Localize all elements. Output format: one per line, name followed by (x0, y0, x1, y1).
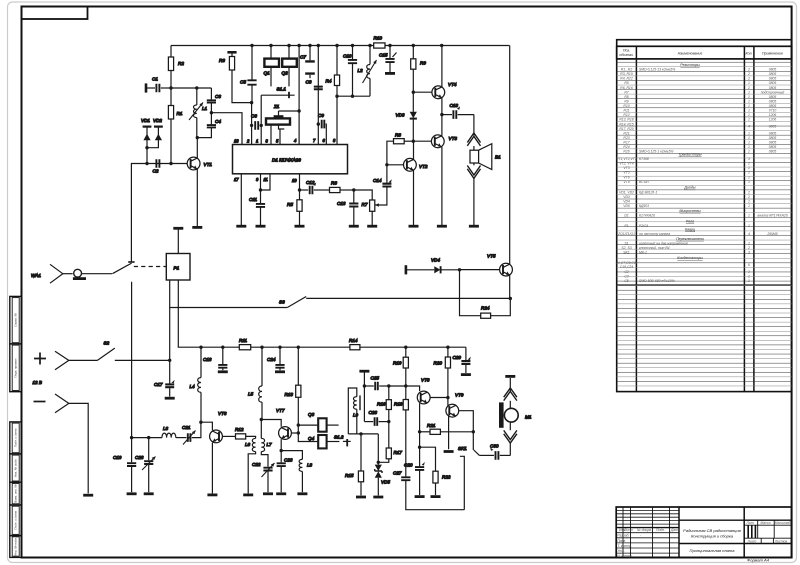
resistor R16 (377, 386, 391, 422)
node VT7 emitter (280, 449, 283, 452)
resistor R10 (374, 36, 386, 49)
svg-text:1: 1 (748, 279, 750, 283)
svg-text:VD3: VD3 (396, 113, 405, 118)
node VT8 base R20 (446, 396, 449, 399)
capacitor C23 (277, 451, 293, 493)
svg-text:1: 1 (748, 95, 750, 99)
wire P1 top to ground bar (177, 230, 179, 254)
ground minus line (83, 494, 93, 497)
capacitor C14 (373, 165, 392, 207)
node C1-R1 (169, 86, 172, 89)
svg-text:C24: C24 (267, 357, 276, 362)
svg-text:C23: C23 (284, 458, 293, 463)
svg-text:C12: C12 (306, 180, 315, 185)
transistor VT6 (201, 411, 236, 493)
svg-text:1: 1 (748, 136, 750, 140)
ground VT3 emitter (437, 225, 447, 228)
capacitor C29 (453, 347, 471, 373)
node S2-P1-C17 (168, 359, 171, 362)
svg-text:C16,C24: C16,C24 (620, 265, 633, 269)
svg-text:C26: C26 (369, 410, 378, 415)
svg-text:L4: L4 (190, 384, 196, 389)
margin cell Взам. инв. № (10, 482, 22, 505)
svg-text:C16: C16 (450, 103, 459, 108)
svg-text:2: 2 (747, 72, 750, 76)
ground P1 top (173, 227, 183, 230)
corner document box (22, 7, 88, 20)
ground VT1 emitter (192, 226, 202, 229)
node R9-VT4 base (412, 91, 415, 94)
capacitor C9 (318, 113, 326, 145)
svg-text:Q3: Q3 (308, 412, 315, 417)
svg-text:Наименование: Наименование (678, 52, 703, 56)
svg-text:P1: P1 (174, 266, 180, 271)
resistor R18 (394, 386, 408, 476)
svg-text:VD1, VD2: VD1, VD2 (619, 190, 634, 194)
svg-text:R6, R16: R6, R16 (620, 86, 633, 90)
svg-text:0805: 0805 (769, 68, 777, 72)
node C28 tap (147, 436, 150, 439)
svg-text:VD1: VD1 (141, 118, 150, 123)
title block (616, 507, 791, 558)
resistor R20 (434, 347, 451, 406)
svg-text:C17: C17 (154, 382, 163, 387)
node C10 bottom (351, 95, 354, 98)
svg-text:R21: R21 (623, 131, 629, 135)
filter Q2 (282, 46, 297, 87)
svg-text:аналог КР174ХА26: аналог КР174ХА26 (757, 213, 787, 217)
svg-text:обознач.: обознач. (619, 53, 633, 57)
svg-text:R17: R17 (394, 450, 403, 455)
wire C10-L2 node (337, 95, 370, 97)
svg-text:Инв. № подл.: Инв. № подл. (13, 537, 17, 556)
svg-text:Подп. и дата: Подп. и дата (13, 511, 17, 530)
filter Q1 (264, 46, 280, 87)
svg-text:Z1: Z1 (273, 104, 280, 109)
inductor L4 (190, 347, 202, 422)
svg-text:26М45: 26М45 (766, 232, 777, 236)
svg-text:C22: C22 (252, 462, 261, 467)
svg-text:3: 3 (748, 157, 750, 161)
svg-text:S2: S2 (104, 341, 110, 346)
svg-text:2: 2 (747, 86, 750, 90)
svg-text:C28: C28 (135, 455, 144, 460)
svg-text:C8: C8 (306, 80, 312, 85)
svg-text:R14, R15: R14, R15 (619, 122, 633, 126)
svg-text:1: 1 (748, 145, 750, 149)
ground C20 (415, 495, 425, 498)
svg-text:L5: L5 (248, 392, 254, 397)
ground L6 (243, 493, 253, 496)
switch SK1 (458, 432, 479, 510)
svg-text:C2: C2 (624, 270, 628, 274)
svg-text:R20: R20 (434, 361, 443, 366)
svg-text:SK1: SK1 (458, 446, 467, 451)
capacitor C18 (203, 347, 227, 370)
switch S1.1 (261, 87, 294, 99)
wire top power bus (171, 45, 510, 47)
wire pin 9 (260, 174, 262, 190)
svg-text:VT4: VT4 (448, 82, 457, 87)
svg-text:WA1: WA1 (31, 273, 41, 278)
svg-text:C7: C7 (300, 55, 306, 60)
svg-text:Диоды: Диоды (683, 186, 696, 190)
svg-text:R5: R5 (287, 202, 293, 207)
svg-text:C25: C25 (371, 376, 380, 381)
margin cell Инв. № подл. (10, 536, 22, 558)
svg-text:12 В: 12 В (33, 380, 42, 385)
svg-text:VT1,VT2,VT3: VT1,VT2,VT3 (616, 157, 637, 161)
svg-text:1: 1 (748, 195, 750, 199)
svg-text:Кварц: Кварц (685, 228, 695, 232)
svg-text:Переключатели: Переключатели (676, 237, 704, 241)
relay P1 (166, 254, 190, 281)
svg-text:1: 1 (748, 204, 750, 208)
svg-text:L1: L1 (202, 106, 208, 111)
capacitor C30 (479, 444, 510, 460)
node C3-C4 (210, 111, 213, 114)
svg-text:R13, R18: R13, R18 (619, 118, 633, 122)
svg-text:R6: R6 (331, 181, 337, 186)
svg-text:R10: R10 (623, 104, 629, 108)
capacitor C2 (153, 159, 160, 173)
relay contact blade (112, 263, 131, 274)
capacitor C24 (267, 347, 285, 370)
ground C29 (461, 373, 471, 376)
resistor R2 (168, 46, 184, 89)
svg-text:Н. контр.: Н. контр. (617, 554, 632, 558)
node L5-L7-VT7 (260, 418, 263, 421)
svg-text:1: 1 (748, 224, 750, 228)
svg-text:L9: L9 (353, 413, 359, 418)
ground R7 (367, 225, 377, 228)
svg-text:R3: R3 (219, 58, 225, 63)
svg-text:КТ368: КТ368 (639, 157, 649, 161)
svg-text:R8: R8 (624, 95, 628, 99)
svg-text:R12: R12 (235, 427, 244, 432)
wire input line (131, 164, 187, 263)
svg-text:Транзисторы: Транзисторы (678, 153, 701, 157)
ground VT6 emitter (207, 493, 217, 496)
wire L3 line (132, 437, 162, 439)
svg-text:Перв. примен.: Перв. примен. (13, 358, 17, 378)
diode VD4 (406, 258, 460, 274)
svg-text:К174ХА26: К174ХА26 (639, 213, 655, 217)
svg-text:VD5: VD5 (381, 480, 390, 485)
svg-text:№ докум.: № докум. (637, 528, 652, 532)
wire P1 right pin to rail (178, 280, 201, 347)
svg-text:S1.2: S1.2 (334, 435, 344, 440)
ground VT2 emitter (409, 225, 419, 228)
resistor R7 trimmer (354, 190, 375, 225)
node L9-R15-VD5 (359, 432, 362, 435)
wire C1 to C3 (171, 87, 211, 89)
svg-text:Применение: Применение (762, 52, 783, 56)
svg-text:R26: R26 (623, 150, 629, 154)
wire C25 left vertical (363, 372, 365, 421)
switch S3 (170, 297, 511, 308)
svg-text:0805: 0805 (769, 141, 777, 145)
svg-text:Реле: Реле (686, 219, 694, 223)
antenna jack (73, 269, 112, 278)
resistor R3 (219, 52, 252, 102)
svg-text:R2: R2 (178, 61, 184, 66)
wire pin 1 (260, 95, 262, 144)
node VD3-R8-VT3 (412, 140, 415, 143)
svg-text:C1: C1 (152, 77, 158, 82)
inductor L2 variable (358, 46, 377, 97)
svg-text:SMD-0,125-13 кОм±5%: SMD-0,125-13 кОм±5% (639, 68, 675, 72)
ground C19 (127, 492, 137, 495)
svg-text:Подп. и дата: Подп. и дата (13, 428, 17, 447)
svg-text:R21: R21 (427, 423, 436, 428)
svg-text:2: 2 (747, 190, 750, 194)
svg-text:0805: 0805 (769, 150, 777, 154)
resistor R4 and wire pin 8 (326, 46, 340, 145)
wire pin 11 (261, 174, 271, 190)
filter Q3 (298, 412, 338, 432)
capacitor C17 (154, 360, 175, 396)
resistor R13 (285, 347, 301, 433)
svg-text:R1: R1 (177, 111, 183, 116)
node rail junctions (199, 346, 449, 349)
svg-text:VD4: VD4 (431, 258, 440, 263)
filter Q4 (298, 433, 339, 448)
ground R5 (295, 225, 305, 228)
svg-text:R24: R24 (623, 145, 629, 149)
svg-text:R24: R24 (481, 306, 490, 311)
parts list table (617, 40, 792, 392)
svg-text:R3, R19: R3, R19 (620, 72, 633, 76)
mechanical link dashed (134, 266, 166, 268)
svg-text:Дата: Дата (670, 528, 680, 532)
svg-text:4: 4 (748, 125, 750, 129)
svg-text:Конструкция и сборка: Конструкция и сборка (691, 533, 734, 538)
svg-text:Поз.: Поз. (623, 49, 630, 53)
wire pin 10 (299, 174, 301, 190)
svg-text:Масштаб: Масштаб (775, 521, 791, 525)
svg-text:VT3: VT3 (623, 166, 629, 170)
svg-text:C3: C3 (215, 94, 221, 99)
transistor VT2 (387, 141, 428, 225)
svg-text:L3: L3 (163, 426, 169, 431)
svg-text:2: 2 (747, 246, 750, 250)
ground C22 (263, 492, 273, 495)
svg-text:R14: R14 (349, 338, 358, 343)
resistor R22 (420, 447, 451, 495)
capacitor C3 (207, 88, 222, 113)
svg-text:КД-9В126-1: КД-9В126-1 (639, 190, 657, 194)
capacitor C28 trimmer (135, 438, 156, 493)
svg-text:R9: R9 (420, 61, 426, 66)
svg-text:R4, R22: R4, R22 (620, 77, 633, 81)
resistor R11 (239, 338, 251, 350)
wire pin 17 to ground (240, 174, 242, 225)
svg-text:S2, S3: S2, S3 (621, 246, 631, 250)
svg-text:C2: C2 (153, 169, 159, 174)
node VD5-R17 (377, 461, 380, 464)
ground R15 (356, 496, 366, 499)
node R4-C10 line (335, 95, 338, 98)
node R6-C13-R7 (352, 188, 355, 191)
svg-text:Q2: Q2 (282, 71, 289, 76)
table row rules (617, 62, 792, 386)
svg-text:11: 11 (264, 177, 268, 182)
svg-text:R17, R20: R17, R20 (619, 127, 633, 131)
svg-text:B1: B1 (495, 155, 501, 160)
svg-text:1: 1 (748, 104, 750, 108)
svg-text:L2: L2 (358, 68, 364, 73)
margin cell Справ. № (10, 296, 22, 344)
svg-text:C18: C18 (203, 357, 212, 362)
capacitor C26 (364, 410, 388, 426)
svg-text:1: 1 (748, 171, 750, 175)
table row texts (616, 63, 788, 283)
resistor R8 (387, 133, 413, 165)
svg-text:R19: R19 (393, 361, 402, 366)
diode VD1 (141, 118, 151, 164)
ground C23 (276, 492, 286, 495)
margin cell Подп. и дата (10, 505, 22, 536)
svg-text:R9: R9 (624, 100, 628, 104)
svg-text:1: 1 (748, 150, 750, 154)
resistor R6 (330, 181, 354, 193)
svg-text:1: 1 (748, 175, 750, 179)
wire lower supply rail (201, 346, 466, 348)
resistor R24 loop (460, 270, 511, 319)
svg-text:R23: R23 (623, 136, 629, 140)
svg-text:Подп.: Подп. (656, 528, 665, 532)
terminal VD4 line (405, 265, 408, 274)
svg-text:Формат А4: Формат А4 (747, 557, 770, 562)
margin cell Подп. и дата (10, 422, 22, 454)
svg-text:C5: C5 (240, 80, 246, 85)
svg-text:0805: 0805 (769, 81, 777, 85)
svg-text:1206: 1206 (769, 118, 777, 122)
transformer L6 (245, 438, 256, 493)
capacitor C25 (364, 376, 388, 391)
node L3 input (130, 436, 133, 439)
antenna WA1 (31, 264, 73, 283)
node R3-C5-pin2 (250, 101, 253, 104)
transistor VT4 (413, 46, 457, 115)
svg-text:1: 1 (748, 166, 750, 170)
svg-text:R4: R4 (326, 79, 332, 84)
microphone M1 (499, 376, 532, 455)
svg-text:C10: C10 (343, 54, 352, 59)
svg-text:R5: R5 (624, 81, 628, 85)
svg-text:Радиольная СВ радиостанция: Радиольная СВ радиостанция (683, 528, 742, 533)
svg-text:1: 1 (748, 131, 750, 135)
node pin9-11 (259, 188, 262, 191)
svg-text:C30: C30 (490, 444, 499, 449)
svg-text:R17: R17 (623, 141, 629, 145)
node VD4-VT5 base (458, 268, 461, 271)
svg-text:4: 4 (748, 232, 750, 236)
ground C28 (144, 492, 154, 495)
svg-text:M1: M1 (525, 415, 532, 420)
node VT7 base (297, 431, 300, 434)
node R21 ends (418, 430, 475, 449)
svg-text:VT2, VT4: VT2, VT4 (619, 162, 633, 166)
svg-text:17: 17 (234, 177, 239, 182)
svg-text:1: 1 (748, 100, 750, 104)
svg-text:C14: C14 (373, 178, 382, 183)
svg-text:C11: C11 (249, 197, 258, 202)
wire relay TX contact down to L3 (131, 282, 133, 438)
ground bar C25 top (359, 370, 369, 373)
node wire163 junctions (145, 162, 172, 165)
resistor R15 (345, 434, 364, 496)
svg-text:МК-1: МК-1 (639, 251, 647, 255)
svg-text:Инв. № дубл.: Инв. № дубл. (13, 459, 17, 478)
ground B1 (469, 225, 479, 228)
svg-text:VT6: VT6 (623, 175, 629, 179)
svg-text:0805: 0805 (769, 131, 777, 135)
svg-text:L8: L8 (307, 463, 313, 468)
svg-text:R10: R10 (374, 36, 383, 41)
ground C18 (218, 370, 228, 373)
svg-text:1206: 1206 (769, 113, 777, 117)
svg-text:1: 1 (748, 90, 750, 94)
svg-text:VT2: VT2 (419, 164, 428, 169)
node VT5 emitter S3 (509, 297, 512, 300)
svg-text:VT5: VT5 (623, 171, 629, 175)
svg-text:1: 1 (748, 213, 750, 217)
svg-text:R16: R16 (377, 402, 386, 407)
diode VD2 (147, 118, 163, 148)
capacitor C19 (113, 438, 136, 493)
wire L9 node to VD5 (348, 433, 378, 435)
svg-text:VT8: VT8 (421, 378, 430, 383)
capacitor C8 and wire pin 7 (306, 46, 323, 145)
inductor L5 (248, 347, 262, 419)
svg-text:0805: 0805 (769, 104, 777, 108)
svg-text:галетный на два направления: галетный на два направления (639, 241, 688, 245)
svg-text:Р1: Р1 (624, 224, 628, 228)
svg-text:Листов: Листов (774, 539, 788, 543)
wire P1 left pin down (169, 280, 171, 360)
svg-text:VT5: VT5 (487, 254, 496, 259)
node VD1-VD2 (145, 146, 148, 149)
svg-text:VT9: VT9 (623, 180, 629, 184)
svg-text:D1 К174ХА26: D1 К174ХА26 (272, 158, 301, 163)
resistor R12 (235, 427, 256, 439)
svg-text:S3: S3 (279, 300, 285, 305)
ground C13 (349, 225, 359, 228)
svg-text:0805: 0805 (769, 95, 777, 99)
svg-text:0805: 0805 (769, 100, 777, 104)
svg-text:R13: R13 (285, 392, 294, 397)
resistor R19 (393, 347, 408, 386)
svg-text:Пров.: Пров. (617, 539, 626, 543)
svg-text:1: 1 (748, 113, 750, 117)
svg-text:0805: 0805 (769, 72, 777, 76)
svg-text:Кол.: Кол. (745, 52, 752, 56)
svg-text:1: 1 (748, 180, 750, 184)
node VT2 base-C14 (385, 163, 388, 166)
capacitor C21 trimmer (176, 422, 201, 444)
node C6 (250, 124, 263, 127)
svg-text:C6: C6 (251, 114, 257, 119)
svg-text:Микросхемы: Микросхемы (679, 209, 701, 213)
svg-text:Принципиальная плата: Принципиальная плата (690, 548, 736, 553)
svg-text:1: 1 (256, 139, 258, 144)
wire pin 4 (298, 46, 300, 145)
wire pin 2 (251, 103, 253, 145)
svg-text:C5: C5 (624, 279, 628, 283)
capacitor C4 (197, 113, 221, 138)
